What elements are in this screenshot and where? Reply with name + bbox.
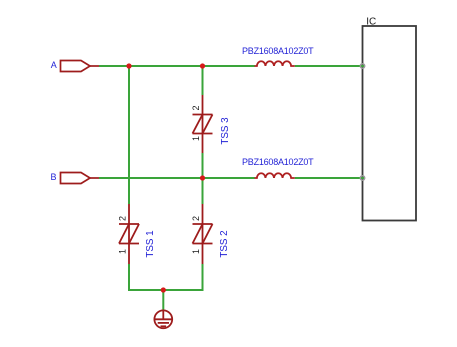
junction node on wire A at x=202.5 [200,63,205,68]
port A [61,61,100,72]
TSS 3 (thyristor surge suppressor) [193,95,213,153]
junction node on wire B at x=202.5 [200,175,205,180]
wire: TSS2 bottom to ground rail [202,264,204,291]
wire: TSS3 bottom to wire B [202,153,204,178]
wire: TSS1 bottom to ground rail [128,264,130,291]
inductor L2 [255,173,295,178]
svg-text:1: 1 [117,249,127,254]
wire: vertical from wire A junction down to TSS3 [202,66,204,95]
ground rail wire [128,289,204,291]
svg-text:PBZ1608A102Z0T: PBZ1608A102Z0T [242,157,314,167]
svg-text:2: 2 [191,216,201,221]
wire: inductor L2 to IC pin [295,177,364,179]
svg-text:1: 1 [191,136,201,141]
wire B: port to inductor L2 [99,177,255,179]
wire: inductor L1 to IC pin [295,65,364,67]
svg-text:PBZ1608A102Z0T: PBZ1608A102Z0T [242,46,314,56]
svg-text:A: A [51,60,57,70]
wire: rail down to earth symbol [162,290,164,310]
svg-text:2: 2 [191,105,201,110]
IC pin connection node A [360,64,365,68]
junction node on wire A at x=129 [126,63,131,68]
svg-text:1: 1 [191,249,201,254]
svg-text:IC: IC [366,16,376,27]
inductor L1 [255,61,295,66]
wire: wire B junction down to TSS2 [202,178,204,204]
wire: vertical from wire A junction down to TSS1 (crosses wire B) [128,66,130,204]
svg-text:B: B [51,172,57,182]
svg-text:2: 2 [117,216,127,221]
IC box U1 [363,26,417,221]
svg-text:TSS 2: TSS 2 [219,230,230,257]
IC pin connection node B [360,176,365,180]
TSS 1 (thyristor surge suppressor) [119,204,139,264]
svg-text:TSS 3: TSS 3 [220,117,231,145]
svg-text:TSS 1: TSS 1 [145,230,156,257]
protective earth ground symbol [154,310,172,329]
TSS 2 (thyristor surge suppressor) [193,204,213,264]
wire A: port to inductor L1 [99,65,255,67]
port B [61,173,100,184]
junction node on ground rail [161,287,166,292]
